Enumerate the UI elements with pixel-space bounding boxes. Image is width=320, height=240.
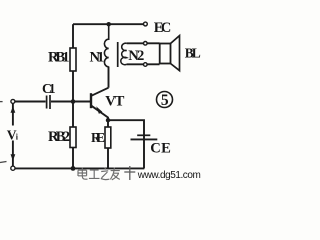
svg-text:www.dg51.com: www.dg51.com — [137, 170, 201, 181]
svg-text:RE: RE — [91, 130, 105, 145]
svg-text:N1: N1 — [90, 50, 105, 66]
svg-text:RB2: RB2 — [48, 129, 70, 145]
svg-text:5: 5 — [161, 92, 169, 109]
svg-text:N2: N2 — [128, 48, 144, 64]
svg-text:C1: C1 — [42, 81, 56, 96]
svg-text:BL: BL — [185, 46, 201, 61]
svg-text:RB1: RB1 — [48, 49, 70, 65]
svg-text:CE: CE — [150, 141, 171, 157]
svg-text:EC: EC — [154, 20, 172, 36]
svg-text:VT: VT — [105, 94, 124, 110]
